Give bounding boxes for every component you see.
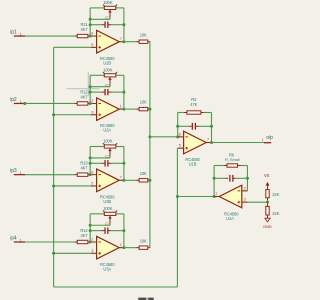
resistor R11 4K7 (74, 35, 77, 37)
svg-text:U1B: U1B (189, 161, 197, 166)
junction cap left (89, 91, 92, 94)
op-amp U2B RC4580 (97, 30, 120, 53)
plus glyph (98, 46, 101, 48)
svg-text:22K: 22K (272, 192, 279, 197)
svg-text:10K: 10K (140, 238, 147, 243)
junction wiper tap (89, 224, 92, 227)
junction summing bus/U3B 10K (148, 179, 151, 182)
capacitor C? (U3A feedback) (90, 230, 101, 232)
capacitor C? (U3B feedback) (90, 162, 101, 164)
VS stem (267, 186, 269, 190)
svg-text:2: 2 (244, 186, 246, 190)
potentiometer 100K (U2A feedback) (90, 74, 104, 76)
virtual-ground bus bottom wire (54, 286, 178, 288)
svg-text:10K: 10K (140, 171, 147, 176)
resistor R13 4K7 (74, 174, 77, 176)
svg-text:C?: C? (105, 221, 111, 226)
minus glyph (98, 35, 101, 37)
svg-text:5: 5 (91, 43, 93, 47)
svg-text:R_Small: R_Small (225, 157, 240, 162)
node R13/op-amp inverting input (89, 173, 92, 176)
plus glyph (98, 114, 101, 116)
minus glyph (98, 102, 101, 104)
svg-text:6: 6 (91, 32, 93, 36)
junction cap left (89, 229, 92, 232)
summing bus vertical (149, 42, 151, 248)
wire virtual ground to U1A output (177, 196, 214, 198)
resistor 22K upper (266, 190, 269, 198)
svg-text:5: 5 (91, 182, 93, 186)
pin 3 stub (91, 252, 97, 254)
junction divider midpoint (266, 201, 269, 204)
capacitor C? (U2B feedback) (90, 24, 101, 26)
pin 3 stub (91, 114, 97, 116)
plus glyph (238, 201, 241, 203)
output pin 1 stub (119, 247, 124, 249)
plus glyph (185, 147, 188, 149)
output node U3A (122, 246, 125, 249)
svg-text:100K: 100K (103, 206, 113, 211)
resistor 10K (U3A output) (136, 247, 139, 249)
pot wiper arrow (108, 10, 111, 13)
wire U1B output to o/p (212, 142, 264, 144)
junction cap left U1A (213, 177, 216, 180)
virtual-ground bus vertical (53, 47, 55, 287)
wiper stem (109, 151, 111, 155)
svg-text:ip1: ip1 (10, 29, 17, 35)
wire U1A pin3 to divider (247, 201, 267, 203)
svg-text:C?: C? (105, 154, 111, 159)
wiper wire down (109, 17, 111, 20)
junction virtual-ground node (176, 195, 179, 198)
junction bus/U3A + input (52, 252, 55, 255)
pin 5 stub (91, 185, 97, 187)
op-amp U2A RC4580 (97, 98, 120, 121)
wire output to 10K (124, 41, 136, 43)
feedback left vertical U3B (89, 147, 91, 175)
feedback right vertical U3B (123, 147, 125, 181)
op-amp U1A RC4580 (mirrored) (219, 185, 242, 208)
wire virtual-ground bus to + input (54, 252, 91, 254)
resistor 10K (U3B output) (136, 179, 139, 181)
svg-text:ip3: ip3 (10, 168, 17, 174)
cursor crosshair vertical (87, 72, 89, 97)
input pin stub ip4 (14, 241, 25, 243)
pot wiper arrow (108, 215, 111, 218)
U1B pin 6 stub (178, 136, 184, 138)
svg-text:47K: 47K (190, 102, 197, 107)
node R14/op-amp inverting input (89, 241, 92, 244)
plus glyph (98, 252, 101, 254)
wiper stem (109, 12, 111, 16)
wiper stem (109, 80, 111, 84)
svg-text:10K: 10K (140, 100, 147, 105)
svg-text:U2B: U2B (103, 60, 111, 65)
wire ip3 to R13 (25, 174, 74, 176)
svg-text:2: 2 (91, 99, 93, 103)
U1B feedback left vertical (177, 113, 179, 137)
feedback left vertical U3A (89, 214, 91, 242)
output node U1B (210, 141, 213, 144)
plus glyph (98, 185, 101, 187)
wire divider mid (267, 200, 269, 204)
output pin 7 stub (119, 179, 124, 181)
pin 5 stub (91, 46, 97, 48)
junction cap left (89, 23, 92, 26)
svg-text:100K: 100K (103, 68, 113, 73)
ground symbol GND (265, 218, 270, 222)
resistor R6 R_Small (214, 165, 224, 167)
U1B output pin 7 stub (206, 142, 211, 144)
wiper wire down (109, 84, 111, 87)
svg-text:ip4: ip4 (10, 235, 17, 241)
minus glyph (185, 136, 188, 138)
junction wiper tap (89, 85, 92, 88)
svg-text:4K7: 4K7 (81, 166, 89, 171)
svg-text:1: 1 (215, 192, 217, 196)
op-amp U1B RC4580 (184, 131, 207, 154)
op-amp U3B RC4580 (97, 169, 120, 192)
junction cap right (122, 23, 125, 26)
wire ip2 to R12 (25, 102, 74, 104)
svg-text:ip2: ip2 (10, 97, 17, 103)
svg-text:1: 1 (262, 138, 264, 142)
capacitor C? (U2A feedback) (90, 91, 101, 93)
junction summing bus/U2A 10K (148, 108, 151, 111)
U1A pin 3 stub (242, 201, 248, 203)
svg-text:VS: VS (264, 173, 270, 178)
junction summing bus/U1B input (148, 135, 151, 138)
output pin 1 stub (119, 108, 124, 110)
wire summing bus to U1B pin 6 (150, 136, 178, 138)
U1B feedback right vertical (211, 113, 213, 143)
junction wiper tap (89, 18, 92, 21)
svg-text:1: 1 (120, 104, 122, 108)
wire ip1 to R11 (25, 35, 74, 37)
output pin 7 stub (119, 41, 124, 43)
output node U2A (122, 108, 125, 111)
input pin stub ip2 (14, 102, 25, 104)
cursor crosshair horizontal (67, 88, 100, 90)
potentiometer 100K (U3A feedback) (90, 213, 104, 215)
svg-text:7: 7 (120, 37, 122, 41)
input pin stub ip3 (14, 174, 25, 176)
pot wiper arrow (108, 148, 111, 151)
minus glyph (98, 241, 101, 243)
feedback left vertical U2B (89, 8, 91, 36)
svg-text:4K7: 4K7 (81, 27, 89, 32)
output node U2B (122, 40, 125, 43)
resistor 10K (U2B output) (136, 41, 139, 43)
svg-text:U1A: U1A (226, 216, 234, 221)
svg-text:C?: C? (105, 15, 111, 20)
wire virtual-ground bus to + input (54, 46, 91, 48)
U1A output pin 1 stub (214, 196, 219, 198)
bottom cropped UI element (138, 297, 154, 300)
pin stub (267, 204, 269, 206)
output node U3B (122, 179, 125, 182)
svg-text:5: 5 (179, 144, 181, 148)
junction cap right U1A (246, 177, 249, 180)
capacitor (U1A feedback) (214, 177, 225, 179)
svg-text:1: 1 (120, 243, 122, 247)
pot left leg tick (103, 211, 105, 213)
pot wiper arrow (108, 77, 111, 80)
wiper wire down (109, 155, 111, 158)
pot left leg tick (103, 5, 105, 7)
junction bus/U3B + input (52, 184, 55, 187)
input pin stub ip1 (14, 35, 25, 37)
GND stem (267, 215, 269, 218)
svg-text:6: 6 (91, 170, 93, 174)
wiper wire to left vertical (90, 18, 110, 20)
junction cap right (122, 162, 125, 165)
potentiometer 100K (U3B feedback) (90, 146, 104, 148)
svg-text:6: 6 (179, 132, 181, 136)
resistor 10K (U2A output) (136, 108, 139, 110)
svg-text:U3A: U3A (103, 266, 111, 271)
wire output to 10K (124, 108, 136, 110)
feedback left vertical U2A (89, 75, 91, 103)
wire virtual-ground bus to + input (54, 185, 91, 187)
svg-text:GND: GND (263, 224, 272, 229)
junction cap right U1B (210, 125, 213, 128)
svg-text:7: 7 (207, 138, 209, 142)
junction cap right (122, 91, 125, 94)
svg-text:3: 3 (91, 110, 93, 114)
wiper wire to left vertical (90, 224, 110, 226)
wire U1B pin5 to virtual ground (176, 148, 178, 196)
svg-text:2: 2 (91, 238, 93, 242)
resistor 22K lower (266, 206, 269, 215)
wire ip4 to R14 (25, 241, 74, 243)
svg-text:100K: 100K (103, 0, 113, 5)
junction cap left U1B (176, 125, 179, 128)
node R12/op-amp inverting input (89, 102, 92, 105)
pot right leg tick (115, 72, 117, 74)
wire output to 10K (124, 247, 136, 249)
svg-text:o/p: o/p (266, 135, 273, 141)
pot right leg tick (115, 143, 117, 145)
junction on ip2 wire (23, 102, 26, 105)
junction cap right (122, 229, 125, 232)
svg-text:3: 3 (91, 249, 93, 253)
junction cap left (89, 162, 92, 165)
svg-text:C?: C? (105, 82, 111, 87)
junction wiper tap (89, 156, 92, 159)
capacitor (U1B feedback) (178, 125, 189, 127)
wiper wire to left vertical (90, 86, 110, 88)
U1B pin 5 stub (178, 147, 184, 149)
resistor R2 47K (178, 112, 184, 114)
U1A feedback right vertical (246, 166, 248, 191)
junction bus/U2A + input (52, 113, 55, 116)
pot left leg tick (103, 143, 105, 145)
pot left leg tick (103, 72, 105, 74)
svg-text:4K7: 4K7 (81, 233, 89, 238)
svg-text:10K: 10K (140, 32, 147, 37)
resistor R14 4K7 (74, 241, 77, 243)
op-amp U3A RC4580 (97, 236, 120, 259)
U1A pin 2 stub (242, 190, 248, 192)
resistor R12 4K7 (74, 102, 77, 104)
svg-text:100K: 100K (103, 139, 113, 144)
pot right leg tick (115, 5, 117, 7)
feedback right vertical U2B (123, 8, 125, 42)
pin stub (267, 198, 269, 200)
virtual-ground bus right vertical (176, 197, 178, 288)
wire virtual-ground bus to + input (54, 114, 91, 116)
svg-text:4K7: 4K7 (81, 94, 89, 99)
wiper wire down (109, 222, 111, 225)
pot right leg tick (115, 211, 117, 213)
potentiometer 100K (U2B feedback) (90, 7, 104, 9)
svg-text:7: 7 (120, 176, 122, 180)
feedback right vertical U2A (123, 75, 125, 109)
svg-text:U2A: U2A (103, 128, 111, 133)
svg-text:3: 3 (244, 198, 246, 202)
wire output to 10K (124, 179, 136, 181)
junction U1B inverting node (176, 135, 179, 138)
o/p pin stub (264, 142, 271, 144)
svg-text:22K: 22K (272, 211, 279, 216)
output node U1A (213, 195, 216, 198)
node R11/op-amp inverting input (89, 35, 92, 38)
wiper stem (109, 218, 111, 222)
minus glyph (98, 174, 101, 176)
svg-text:U3B: U3B (103, 199, 111, 204)
minus glyph (238, 190, 241, 192)
wiper wire to left vertical (90, 157, 110, 159)
U1A feedback left vertical (213, 166, 215, 197)
feedback right vertical U3A (123, 214, 125, 248)
